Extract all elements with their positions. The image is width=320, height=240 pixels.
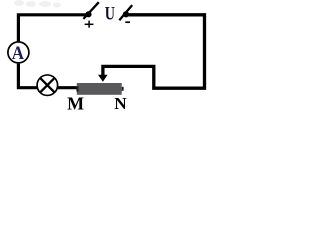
svg-text:A: A — [12, 42, 25, 63]
svg-text:M: M — [67, 93, 84, 112]
svg-text:N: N — [114, 94, 127, 112]
svg-text:U: U — [105, 2, 115, 23]
